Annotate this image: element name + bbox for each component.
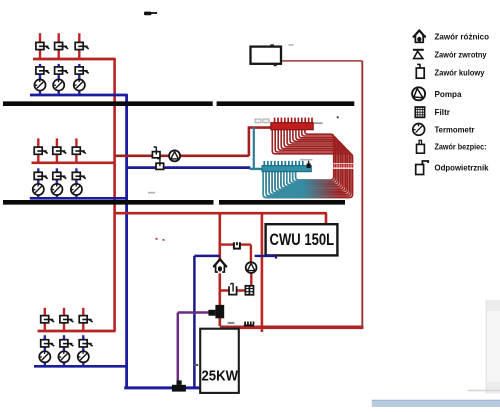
valve group1 return branch 3 [75, 67, 83, 74]
wire group2 red supply manifold [32, 161, 116, 164]
junction red stub below boiler line [261, 329, 264, 332]
legend ball valve icon (zawor kulowy) [416, 64, 424, 78]
wire red pump to filter [250, 273, 252, 287]
status bar band bottom [372, 400, 500, 407]
wire purple boiler mix line [178, 311, 209, 314]
wire red CWU top line [115, 212, 327, 215]
white band across right risers [313, 163, 359, 169]
expansion tank box [251, 47, 282, 64]
valve group1 supply branch 1 [36, 42, 44, 49]
valve group3 supply branch 1 [41, 316, 49, 323]
legend pump icon (pompa) [412, 87, 425, 100]
floor heating loops (supply, red) [263, 129, 352, 198]
floor heating return manifold bar [262, 166, 311, 172]
filter symbol (grid box) [245, 286, 253, 295]
valve group2 supply branch 1 [34, 147, 42, 154]
wire red boiler top line [220, 325, 364, 329]
scrollbar [486, 300, 500, 394]
svg-text:Zawór zwrotny: Zawór zwrotny [435, 51, 487, 60]
mixing valve black (on CWU drop) [208, 305, 224, 318]
CWU 150L tank box [266, 224, 338, 255]
wire red CWU tank feed elbow [325, 213, 328, 228]
wire red CWU drop at x220 [219, 213, 222, 326]
svg-text:Odpowietrznik: Odpowietrznik [435, 164, 489, 173]
svg-text:25KW: 25KW [202, 369, 239, 385]
floor heating supply manifold bar [271, 123, 314, 130]
valve group3 return branch 1 [41, 340, 49, 347]
wire group3 blue return manifold [34, 365, 127, 368]
floor slab line 2 [3, 200, 345, 205]
wire red riser x114 (supply main down left side) [113, 58, 116, 331]
valve group1 return branch 1 [36, 67, 44, 74]
legend safety valve icon (zawor bezpiec) [417, 140, 425, 153]
valve group2 return branch 2 [53, 172, 61, 179]
wire group3 blue branch drops [45, 335, 84, 366]
grey dash right of supply manifold [314, 122, 323, 124]
wire red CWU right drop x262 [261, 213, 264, 327]
valve on red supply line [152, 147, 160, 158]
boiler pump black tee (on return) [172, 380, 186, 391]
black dash top [144, 12, 157, 16]
wire red expansion riser [361, 61, 363, 328]
black speck top right of loops [337, 116, 339, 118]
boiler 25KW box [200, 329, 239, 393]
svg-text:Pompa: Pompa [435, 90, 462, 99]
grey frame line bottom right [468, 390, 500, 392]
legend filter icon (filtr) [415, 107, 424, 117]
svg-text:Filtr: Filtr [435, 108, 451, 117]
valve group3 supply branch 3 [79, 316, 87, 323]
wire blue riser x126 (return main down left side) [125, 94, 128, 387]
red dashes in band [334, 164, 353, 168]
valve group3 return branch 3 [79, 340, 87, 347]
valve group1 supply branch 3 [75, 42, 83, 49]
wire group3 red branch risers [45, 308, 84, 332]
wire red pump column [250, 245, 252, 263]
wire group2 red branch risers [38, 138, 76, 163]
valve on blue return line [156, 158, 164, 169]
valve group1 supply branch 2 [55, 42, 63, 49]
thermometer group1 branch 1 [34, 79, 45, 90]
expansion tank nubs [270, 44, 276, 66]
tick near boiler left edge [194, 364, 198, 366]
legend air vent icon (odpowietrznik) [416, 161, 429, 175]
grey label boxes above supply manifold [255, 119, 269, 123]
legend check valve icon (zawor zwrotny) [413, 50, 424, 59]
thermometer group1 branch 2 [53, 79, 64, 90]
thermometer group1 branch 3 [74, 79, 85, 90]
red speck pair [156, 238, 165, 241]
wire blue CWU return under tank [255, 255, 276, 257]
air vent symbol (open box) [234, 242, 240, 248]
wire group3 red supply manifold [38, 330, 116, 333]
valve group2 return branch 3 [72, 172, 80, 179]
svg-text:Zawór kulowy: Zawór kulowy [435, 69, 485, 78]
wire group1 red branch risers [40, 33, 79, 58]
grey dash left of line2 [148, 192, 155, 194]
valve group1 return branch 2 [55, 67, 63, 74]
safety valve symbol [229, 283, 237, 294]
floor slab line 1 [3, 101, 354, 106]
wire blue return line from floor heating [127, 166, 251, 169]
wire teal return link to manifold [249, 168, 263, 170]
thermometer group2 branch 3 [71, 184, 82, 195]
wire red expansion tank link [282, 60, 362, 62]
wire teal mixing drop [253, 127, 255, 169]
wire blue CWU return left segment [194, 255, 219, 258]
svg-text:Termometr: Termometr [435, 126, 476, 135]
floor heating return manifold ticks [264, 161, 303, 166]
floor heating loops return overlay (teal gradient) [263, 171, 340, 198]
legend thermometer icon (termometr) [413, 123, 425, 135]
wire group2 blue branch drops [38, 168, 76, 198]
thermometer group3 branch 1 [39, 351, 50, 362]
thermometer group3 branch 2 [58, 351, 69, 362]
blue stub under tank [275, 256, 277, 259]
pump main circuit (circle with triangle) [169, 150, 180, 161]
wire group2 blue return manifold [30, 197, 128, 200]
floor heating supply manifold ticks [275, 118, 312, 123]
thermometer group3 branch 3 [78, 351, 89, 362]
differential valve (house symbol) [213, 259, 227, 273]
wire blue boiler return bottom [124, 386, 199, 389]
valve group2 return branch 1 [34, 172, 42, 179]
valve on return manifold end [307, 163, 311, 168]
black comb mark on boiler line [244, 322, 255, 327]
grey dash near tank [289, 44, 294, 45]
wire red air-vent branch [220, 243, 251, 245]
wire group1 blue return manifold [30, 94, 128, 97]
svg-text:Zawór różnico: Zawór różnico [435, 33, 490, 42]
grey micro label above return manifold [300, 159, 313, 161]
thermometer group2 branch 1 [33, 184, 44, 195]
thermometer group2 branch 2 [51, 184, 62, 195]
wire group1 red supply manifold [33, 58, 116, 61]
legend house icon (zawor roznicowy) [413, 30, 426, 43]
svg-text:CWU 150L: CWU 150L [270, 231, 335, 249]
pump CWU (circle with triangle) [246, 262, 257, 273]
wire red supply line to floor heating [115, 155, 249, 158]
svg-text:Zawór bezpiec:: Zawór bezpiec: [435, 143, 487, 152]
wire blue CWU return vertical [193, 256, 196, 388]
wire red safety-filter row [220, 289, 246, 291]
wire purple vertical [177, 313, 180, 386]
grey dash on boiler line [228, 322, 235, 324]
wire group1 blue branch drops [40, 64, 79, 95]
valve group2 supply branch 3 [72, 147, 80, 154]
valve group3 return branch 2 [60, 340, 68, 347]
valve group2 supply branch 2 [53, 147, 61, 154]
valve group3 supply branch 2 [60, 316, 68, 323]
wire red supply elbow up to manifold [249, 128, 272, 156]
